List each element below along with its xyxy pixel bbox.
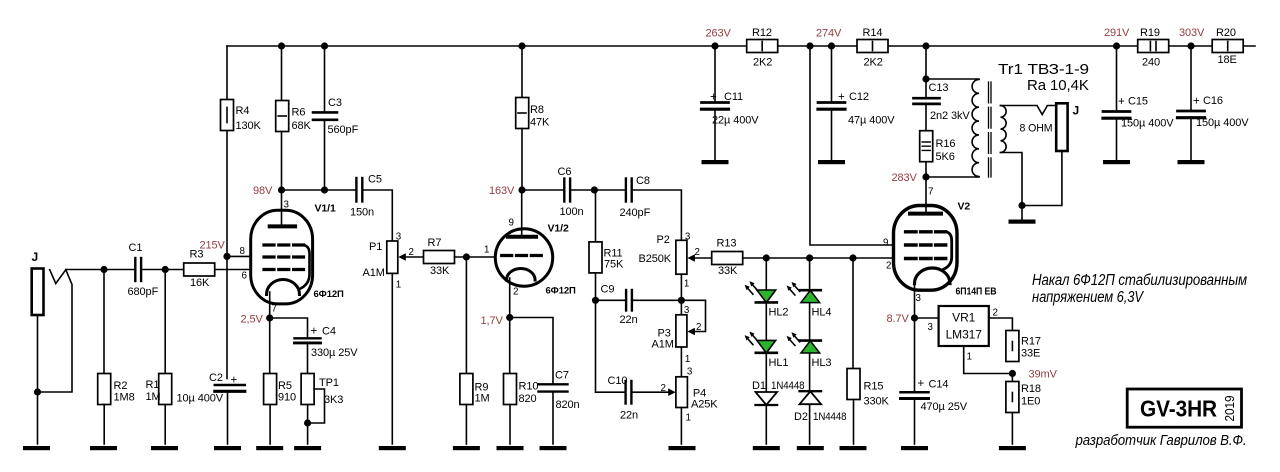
svg-text:R1: R1	[146, 379, 160, 391]
ground TP1	[294, 446, 321, 450]
svg-text:7: 7	[928, 187, 933, 198]
regulator VR1 LM317	[928, 306, 998, 363]
ground P4	[669, 446, 696, 450]
svg-text:820n: 820n	[556, 399, 580, 411]
capacitor C7	[539, 370, 580, 412]
svg-text:C13: C13	[929, 82, 949, 94]
svg-text:100n: 100n	[560, 206, 584, 218]
wire B+ to C13 and transformer	[926, 46, 979, 212]
junction P3 top	[678, 297, 685, 304]
svg-text:+: +	[1118, 96, 1125, 108]
svg-text:7: 7	[272, 304, 277, 315]
svg-text:33K: 33K	[718, 265, 738, 277]
svg-text:VR1: VR1	[952, 311, 975, 325]
capacitor C8	[620, 175, 651, 219]
svg-text:Накал 6Ф12П стабилизированным: Накал 6Ф12П стабилизированным	[1032, 272, 1247, 289]
svg-text:22n: 22n	[620, 314, 638, 326]
svg-text:8.7V: 8.7V	[887, 313, 910, 325]
svg-text:R17: R17	[1021, 336, 1041, 348]
diode D2 1N4448	[794, 391, 847, 423]
ground R2	[90, 446, 117, 450]
resistor R7	[424, 237, 502, 277]
wire pin1 to 39mV node	[964, 346, 1013, 374]
svg-text:D1: D1	[752, 380, 766, 392]
svg-text:2019: 2019	[1223, 395, 1237, 421]
svg-text:C1: C1	[129, 242, 143, 254]
wire cathode 1.7V node	[510, 318, 553, 445]
svg-text:P1: P1	[369, 241, 382, 253]
junction R9 top	[463, 253, 470, 260]
resistor R9	[460, 257, 490, 444]
svg-text:2,5V: 2,5V	[241, 314, 264, 326]
svg-text:R7: R7	[428, 237, 442, 249]
resistor R5	[264, 374, 296, 445]
svg-text:3: 3	[687, 367, 693, 378]
capacitor C3	[313, 46, 359, 190]
svg-text:+: +	[231, 375, 238, 387]
svg-text:R15: R15	[864, 381, 884, 393]
svg-text:2: 2	[886, 261, 891, 272]
svg-text:6Ф12П: 6Ф12П	[546, 286, 577, 297]
capacitor C6	[558, 166, 584, 218]
resistor R18	[1006, 374, 1041, 445]
svg-text:C15: C15	[1128, 96, 1148, 108]
svg-text:2K2: 2K2	[753, 57, 772, 69]
junction HL2 chain	[763, 254, 770, 261]
ground C12	[818, 160, 845, 164]
svg-text:C2: C2	[209, 372, 223, 384]
svg-text:150µ 400V: 150µ 400V	[1121, 118, 1174, 130]
svg-text:18E: 18E	[1218, 54, 1237, 66]
ground C7	[540, 446, 567, 450]
potentiometer P2	[639, 232, 712, 315]
title box GV-3HR	[1127, 389, 1241, 427]
resistor R12	[747, 27, 778, 69]
ground C14	[901, 446, 928, 450]
svg-text:39mV: 39mV	[1029, 369, 1058, 381]
junction Tr1 top	[922, 75, 929, 82]
svg-text:R5: R5	[278, 380, 292, 392]
svg-text:C12: C12	[849, 91, 869, 103]
capacitor C14	[901, 378, 968, 444]
junction cathode V1/1	[266, 314, 273, 321]
capacitor C15	[1103, 46, 1174, 161]
junction cathode V2	[911, 314, 918, 321]
svg-text:R13: R13	[717, 238, 737, 250]
svg-text:A1M: A1M	[652, 339, 674, 351]
svg-text:910: 910	[278, 392, 296, 404]
junction TP1 wiper	[304, 419, 311, 426]
junction C9 left	[592, 297, 599, 304]
svg-text:303V: 303V	[1179, 27, 1205, 39]
svg-text:A25K: A25K	[691, 399, 718, 411]
svg-text:330K: 330K	[864, 396, 890, 408]
ground R5	[256, 446, 283, 450]
svg-text:163V: 163V	[489, 185, 515, 197]
svg-text:33K: 33K	[430, 265, 450, 277]
svg-text:Tr1 ТВЗ-1-9: Tr1 ТВЗ-1-9	[998, 61, 1089, 78]
svg-text:R20: R20	[1216, 27, 1236, 39]
ground R1	[151, 446, 178, 450]
svg-text:3: 3	[916, 293, 922, 304]
svg-text:263V: 263V	[706, 28, 732, 40]
resistor R2	[98, 270, 135, 445]
svg-text:B250K: B250K	[639, 253, 672, 265]
svg-text:P2: P2	[657, 234, 670, 246]
svg-text:3: 3	[684, 305, 690, 316]
svg-text:6Ф12П: 6Ф12П	[314, 289, 345, 300]
svg-text:R18: R18	[1021, 383, 1041, 395]
svg-text:291V: 291V	[1104, 27, 1130, 39]
junction jack ground	[34, 388, 41, 395]
svg-text:1N4448: 1N4448	[813, 411, 847, 423]
wire pin2 to R17	[989, 318, 1013, 331]
svg-text:820: 820	[519, 393, 537, 405]
wire LED chain A	[765, 258, 767, 444]
junction 39mV	[1009, 370, 1016, 377]
svg-text:2: 2	[513, 287, 518, 298]
svg-text:+: +	[710, 92, 717, 104]
svg-text:2K2: 2K2	[864, 57, 883, 69]
resistor R4	[221, 100, 262, 133]
svg-text:470µ 25V: 470µ 25V	[921, 401, 968, 413]
junction secondary ground	[1018, 202, 1025, 209]
svg-text:C5: C5	[368, 174, 382, 186]
svg-text:1M: 1M	[475, 393, 490, 405]
resistor R3	[184, 249, 215, 290]
capacitor C12	[818, 46, 895, 161]
capacitor C11	[702, 46, 760, 161]
connector J output	[1056, 103, 1079, 151]
svg-text:+: +	[1193, 96, 1200, 108]
svg-text:8 OHM: 8 OHM	[1020, 123, 1053, 135]
svg-text:33E: 33E	[1021, 348, 1040, 360]
svg-text:A1M: A1M	[363, 267, 385, 279]
potentiometer P1	[363, 232, 424, 445]
wire input line	[66, 269, 264, 271]
svg-text:2n2 3kV: 2n2 3kV	[930, 110, 970, 122]
svg-text:HL1: HL1	[769, 357, 789, 369]
svg-text:D2: D2	[794, 411, 808, 423]
trimmer TP1	[301, 374, 343, 445]
wire C6 to C8 node	[594, 190, 681, 240]
svg-text:C14: C14	[929, 379, 949, 391]
capacitor C1	[128, 242, 159, 298]
resistor R10	[504, 374, 539, 445]
ground C2	[214, 446, 241, 450]
svg-text:47K: 47K	[530, 117, 550, 129]
connector J input jack	[32, 250, 73, 444]
svg-text:C11: C11	[724, 91, 743, 103]
svg-text:C4: C4	[322, 326, 336, 338]
svg-text:2: 2	[409, 247, 414, 258]
transformer Tr1 core	[989, 82, 992, 177]
ground D2	[797, 446, 824, 450]
svg-text:47µ 400V: 47µ 400V	[848, 115, 895, 127]
resistor R19	[1138, 27, 1169, 69]
ground R18	[999, 446, 1026, 450]
svg-text:C10: C10	[608, 375, 628, 387]
svg-text:3: 3	[396, 232, 402, 243]
junction cathode V1/2	[506, 314, 513, 321]
svg-text:HL3: HL3	[812, 357, 832, 369]
wire B+ top rail	[227, 45, 1255, 47]
svg-text:C16: C16	[1203, 95, 1223, 107]
svg-text:3: 3	[284, 200, 290, 211]
svg-text:560pF: 560pF	[328, 124, 359, 136]
svg-text:HL4: HL4	[812, 307, 832, 319]
capacitor C5	[350, 174, 382, 219]
svg-text:75K: 75K	[604, 259, 624, 271]
wire 98V plate node	[282, 190, 393, 241]
wire secondary to speaker jack	[1001, 106, 1062, 220]
svg-text:68K: 68K	[292, 120, 312, 132]
svg-text:2: 2	[695, 247, 700, 258]
svg-text:R19: R19	[1140, 27, 1160, 39]
svg-text:1M8: 1M8	[114, 392, 135, 404]
resistor R17	[1006, 331, 1041, 362]
svg-text:98V: 98V	[253, 185, 273, 197]
svg-text:+: +	[311, 326, 318, 338]
svg-text:22µ 400V: 22µ 400V	[712, 115, 759, 127]
svg-text:10µ 400V: 10µ 400V	[177, 393, 224, 405]
diode D1 1N4448	[752, 380, 805, 405]
svg-text:6П14П ЕВ: 6П14П ЕВ	[956, 287, 997, 298]
junction R1	[162, 266, 169, 273]
ground P1	[379, 446, 406, 450]
svg-text:3: 3	[928, 322, 934, 333]
junction 283V anode	[922, 173, 929, 180]
ground R9	[453, 446, 480, 450]
svg-text:2: 2	[696, 322, 701, 333]
svg-text:GV-3HR: GV-3HR	[1140, 396, 1217, 422]
svg-text:напряжением 6,3V: напряжением 6,3V	[1032, 289, 1144, 306]
ground C16	[1178, 160, 1205, 164]
svg-text:+: +	[838, 92, 845, 104]
wire cathode node	[270, 318, 308, 374]
resistor R20	[1212, 27, 1243, 66]
svg-text:V1/2: V1/2	[548, 223, 569, 235]
svg-text:215V: 215V	[200, 240, 226, 252]
svg-text:150µ 400V: 150µ 400V	[1196, 117, 1249, 129]
junction R11 top	[591, 186, 598, 193]
resistor R14	[857, 27, 888, 69]
ground Tr1 secondary	[1009, 220, 1036, 224]
svg-text:22n: 22n	[620, 410, 638, 422]
svg-text:274V: 274V	[816, 28, 842, 40]
ground J	[23, 446, 50, 450]
svg-text:C8: C8	[636, 175, 650, 187]
junction HL4 chain	[806, 254, 813, 261]
svg-text:16K: 16K	[190, 277, 210, 289]
ground C11	[702, 160, 729, 164]
ground D1	[753, 446, 780, 450]
svg-text:330µ 25V: 330µ 25V	[311, 347, 358, 359]
LED HL3	[787, 332, 832, 369]
resistor R1	[146, 270, 172, 445]
svg-text:TP1: TP1	[319, 377, 339, 389]
svg-text:J: J	[1073, 104, 1080, 118]
potentiometer P4	[661, 367, 719, 445]
junction dots on rail	[278, 42, 285, 49]
svg-text:1: 1	[967, 352, 972, 363]
svg-text:3K3: 3K3	[324, 394, 343, 406]
svg-text:R4: R4	[236, 105, 250, 117]
tube V1/2 triode 6F12P	[484, 190, 576, 318]
junction C3 bottom	[321, 186, 328, 193]
transformer Tr1 secondary	[1001, 106, 1007, 153]
svg-text:R2: R2	[114, 380, 128, 392]
svg-text:V1/1: V1/1	[315, 203, 336, 215]
svg-text:1: 1	[686, 413, 691, 424]
transformer Tr1 primary	[972, 80, 979, 177]
wire LED chain B	[809, 258, 811, 444]
capacitor C4	[295, 326, 359, 360]
capacitor C2	[177, 372, 245, 444]
resistor R8	[516, 46, 550, 190]
svg-text:R6: R6	[292, 107, 306, 119]
svg-text:+: +	[918, 378, 925, 390]
LED HL4	[787, 282, 832, 319]
svg-text:1: 1	[684, 279, 689, 290]
svg-text:1E0: 1E0	[1021, 396, 1040, 408]
svg-text:R12: R12	[752, 27, 772, 39]
svg-text:240pF: 240pF	[620, 207, 651, 219]
svg-text:1: 1	[685, 354, 690, 365]
svg-text:1: 1	[484, 245, 489, 256]
svg-text:C7: C7	[555, 370, 569, 382]
wire 274V to screen g2 V2	[810, 46, 906, 245]
svg-text:R10: R10	[519, 381, 539, 393]
svg-text:HL2: HL2	[769, 307, 789, 319]
svg-text:5K6: 5K6	[936, 151, 955, 163]
resistor R13	[712, 238, 906, 278]
potentiometer P3	[652, 300, 706, 377]
svg-text:9: 9	[883, 238, 888, 249]
svg-text:130K: 130K	[236, 120, 262, 132]
svg-text:1,7V: 1,7V	[481, 315, 504, 327]
svg-text:V2: V2	[958, 201, 971, 213]
wire cathode to regulator	[915, 318, 939, 392]
svg-text:R16: R16	[936, 138, 956, 150]
svg-text:2: 2	[661, 383, 666, 394]
svg-text:3: 3	[685, 232, 691, 243]
capacitor C9	[596, 284, 682, 327]
ground C15	[1103, 160, 1130, 164]
svg-text:1: 1	[396, 280, 401, 291]
svg-text:R8: R8	[530, 104, 544, 116]
tube V2 pentode 6P14P	[883, 187, 997, 319]
wire 215V screen feed	[227, 46, 264, 379]
junction 215V	[223, 253, 230, 260]
svg-text:680pF: 680pF	[128, 286, 159, 298]
junction R15 top	[849, 254, 856, 261]
capacitor C13	[914, 82, 971, 122]
svg-text:9: 9	[509, 218, 514, 229]
svg-text:1M: 1M	[146, 391, 161, 403]
resistor R15	[847, 258, 890, 444]
svg-text:8: 8	[240, 246, 246, 257]
svg-text:6: 6	[242, 271, 248, 282]
resistor R6	[276, 46, 312, 190]
svg-text:LM317: LM317	[946, 328, 983, 342]
svg-text:C3: C3	[328, 97, 342, 109]
svg-text:J: J	[32, 250, 39, 264]
wire 163V plate node	[522, 189, 594, 191]
junction R2	[100, 266, 107, 273]
ground R15	[840, 446, 867, 450]
junction 163V	[518, 186, 525, 193]
svg-text:R14: R14	[863, 27, 883, 39]
svg-text:C6: C6	[558, 166, 572, 178]
junction 98V plate	[278, 186, 285, 193]
ground R10	[497, 446, 524, 450]
svg-text:150n: 150n	[350, 207, 374, 219]
svg-text:240: 240	[1142, 57, 1160, 69]
svg-text:разработчик Гаврилов В.Ф.: разработчик Гаврилов В.Ф.	[1075, 433, 1247, 449]
svg-text:Ra 10,4K: Ra 10,4K	[1027, 77, 1089, 94]
resistor R16	[920, 131, 956, 163]
resistor R11	[589, 190, 624, 392]
svg-text:2: 2	[993, 308, 998, 319]
svg-text:283V: 283V	[892, 172, 918, 184]
LED HL1	[745, 332, 789, 370]
capacitor C16	[1178, 46, 1250, 161]
svg-text:C9: C9	[601, 284, 615, 296]
tube V1/1 pentode 6F12P	[240, 190, 345, 318]
LED HL2	[745, 281, 789, 318]
capacitor C10	[596, 375, 669, 422]
